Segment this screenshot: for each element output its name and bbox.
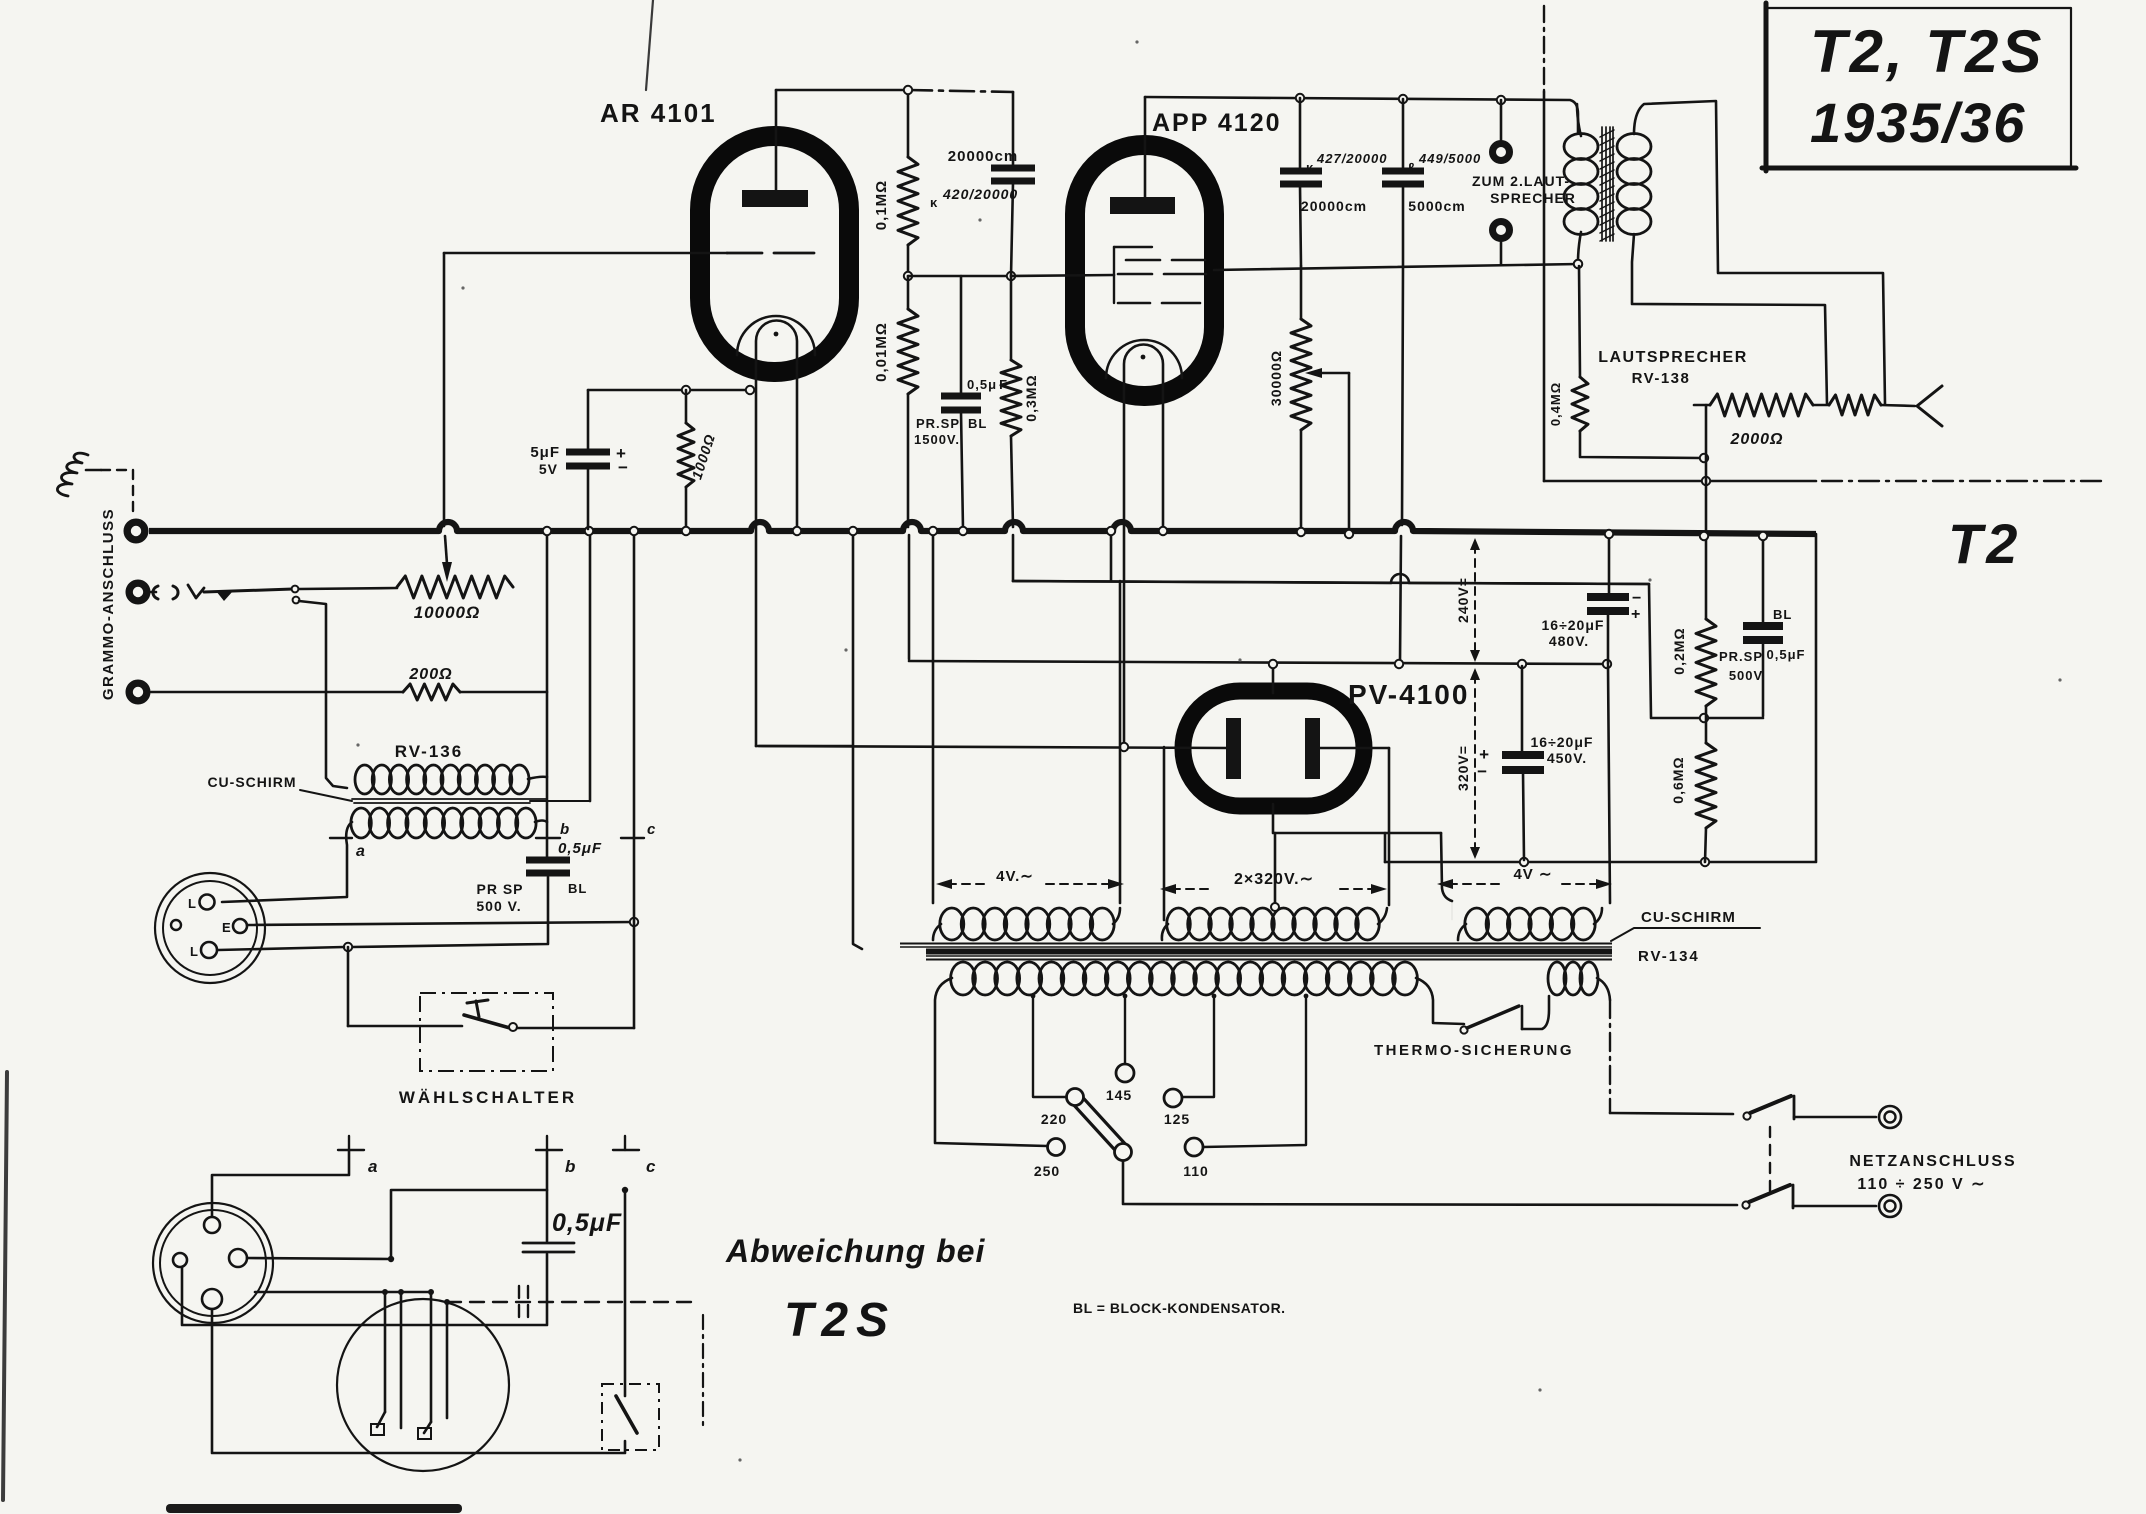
dimension 4V left: [948, 883, 986, 885]
wire 0,1M bottom rail: [908, 275, 1011, 278]
wire 4V-left left lead: [932, 533, 935, 903]
svg-text:T2S: T2S: [784, 1294, 896, 1347]
wire switch to RV-136 primary: [299, 601, 347, 788]
T2S tube pin 4: [446, 1302, 449, 1418]
junction anode rail 3: [1497, 96, 1505, 104]
svg-text:250: 250: [1034, 1163, 1060, 1179]
resistor 1000Ω: [678, 423, 694, 487]
T2S terminal a: [348, 1136, 350, 1150]
label CU-SCHIRM (RV-134): [1611, 928, 1760, 941]
primary tap 145: [1124, 996, 1126, 1064]
junction bus/547: [543, 527, 551, 535]
output transformer core: [1601, 127, 1603, 241]
selector hole 110: [1185, 1138, 1203, 1156]
selector hole 250: [1048, 1139, 1065, 1156]
T2S dashed cross ticks: [518, 1286, 520, 1318]
CU-SCHIRM shield lines: [352, 798, 546, 800]
terminal gramophone 2: [129, 583, 147, 601]
resistor 0,01MΩ leads: [907, 276, 910, 309]
capacitor 5μF 5V: [566, 449, 610, 456]
primary tap 220: [1033, 996, 1066, 1097]
T2S dashed wire: [447, 1301, 700, 1303]
svg-text:RV-136: RV-136: [395, 742, 463, 761]
junction bus/634: [630, 527, 638, 535]
boundary vertical solid: [1543, 92, 1546, 481]
junction 481: [1702, 477, 1710, 485]
resistor 0,01MΩ: [898, 309, 918, 394]
main bus wire (chassis rail): [149, 522, 1816, 534]
terminal gramophone 3: [129, 683, 147, 701]
svg-text:−: −: [1477, 762, 1488, 781]
junction 664 PV: [1269, 660, 1277, 668]
HV left lead: [1163, 747, 1166, 920]
svg-text:κ: κ: [930, 195, 938, 210]
mains switch upper lever: [1750, 1096, 1791, 1113]
T2S capacitor 0,5μF: [523, 1242, 574, 1245]
primary tap 125: [1182, 996, 1214, 1097]
svg-text:5000cm: 5000cm: [1408, 198, 1465, 214]
capacitor 0,5μF PR.SP 1500V: [941, 393, 981, 400]
T2S dash-dot right: [702, 1315, 704, 1428]
pentode APP4120 envelope: [1075, 145, 1214, 396]
APP4120 cathode dome: [1124, 345, 1163, 386]
resistor 0,4MΩ: [1572, 377, 1588, 431]
svg-text:10000Ω: 10000Ω: [414, 603, 481, 622]
scan edge mark bottom-left: [166, 1504, 462, 1513]
Wählschalter dash-dot box: [420, 993, 553, 1071]
pot wiper wire from AR grid: [443, 253, 446, 526]
junction switch a: [292, 586, 299, 593]
capacitor 449/5000 (5000cm): [1382, 168, 1424, 175]
junction bus/1763: [1759, 532, 1767, 540]
dimension 240V line: [1474, 545, 1476, 655]
terminal ring top lead: [1500, 100, 1503, 140]
PV4100 anode right: [1305, 718, 1320, 779]
svg-text:BL: BL: [968, 416, 987, 431]
svg-text:240V=: 240V=: [1455, 577, 1471, 623]
APP4120 grid dashes: [1126, 259, 1160, 262]
svg-text:220: 220: [1041, 1111, 1067, 1127]
junction 664 HT: [1395, 660, 1403, 668]
speaker resistor 2000Ω: [1710, 394, 1813, 416]
mains terminal 1: [1879, 1106, 1901, 1128]
capacitor 5μF leads: [587, 390, 590, 450]
wire selector common: [1123, 1161, 1737, 1205]
mains switch lower contact: [1792, 1185, 1795, 1208]
scan specks: [1135, 40, 1138, 43]
APP4120 heater arc: [1106, 340, 1182, 378]
T2S wire bottom pin: [212, 1309, 625, 1453]
wire top rail AR: [776, 89, 908, 92]
title box: [1766, 8, 2071, 168]
socket pin L bottom: [201, 942, 217, 958]
svg-text:c: c: [646, 1157, 656, 1176]
T2S switch box: [602, 1384, 659, 1450]
wire 2000Ω left drop: [1705, 405, 1708, 619]
CU-SCHIRM leader: [300, 790, 352, 801]
junction anode rail 1: [1296, 94, 1304, 102]
output transformer left coil: [1564, 134, 1598, 160]
mains switch lower lever: [1749, 1185, 1790, 1202]
mains switch upper contact: [1793, 1096, 1796, 1119]
4V right left lead: [1451, 901, 1453, 920]
wire AR filament link: [756, 745, 853, 748]
svg-text:c: c: [647, 821, 656, 838]
tube socket circle outer: [155, 873, 265, 983]
4V left end curves: [933, 908, 1120, 940]
primary winding: [951, 962, 976, 995]
selector hole 125: [1164, 1089, 1182, 1107]
junction bus/686: [682, 527, 690, 535]
resistor 30000Ω leads: [1300, 266, 1303, 319]
svg-text:RV-134: RV-134: [1638, 948, 1700, 965]
PV4100 top lead: [1272, 664, 1275, 693]
antenna tick: [86, 469, 101, 472]
pot wiper arrow: [442, 562, 452, 582]
grammo plug contacts: [153, 586, 178, 599]
capacitor 16-20μF 450V: [1502, 751, 1544, 759]
svg-text:0,5μF: 0,5μF: [1767, 647, 1806, 662]
grammo switch pivot wedge: [216, 591, 233, 601]
svg-text:125: 125: [1164, 1111, 1190, 1127]
selector hole 145: [1116, 1064, 1134, 1082]
T2S tube pin 1: [384, 1292, 387, 1412]
RV-136 secondary right lead: [535, 821, 547, 823]
selector plug bar: [1079, 1102, 1121, 1148]
grammo switch contact V: [188, 585, 204, 598]
output transformer right coil: [1617, 134, 1651, 160]
capacitor 16-20μF 480V: [1587, 593, 1629, 601]
svg-text:2000Ω: 2000Ω: [1729, 431, 1783, 448]
resistor 0,3MΩ leads: [1010, 276, 1013, 360]
APP4120 cathode leg right: [1162, 385, 1165, 529]
wire 4V-left right lead: [1119, 581, 1122, 903]
svg-text:20000cm: 20000cm: [948, 148, 1018, 165]
junction bus/933: [929, 527, 937, 535]
junction bus/963: [959, 527, 967, 535]
resistor 0,1MΩ leads: [907, 90, 910, 157]
RV-136 secondary left lead: [222, 822, 352, 902]
primary right section lead: [1597, 978, 1610, 1000]
capacitor 0,5μF 500V BL: [1743, 622, 1783, 630]
svg-text:449/5000: 449/5000: [1418, 151, 1481, 166]
resistor 0,3MΩ: [1001, 360, 1021, 436]
junction anode rail 2: [1399, 95, 1407, 103]
resistor 1000Ω leads: [685, 390, 688, 423]
svg-text:427/20000: 427/20000: [1316, 151, 1387, 166]
mains switch dashed link: [1769, 1127, 1771, 1194]
svg-text:a: a: [356, 843, 366, 860]
junction bias/753: [746, 386, 754, 394]
svg-text:CU-SCHIRM: CU-SCHIRM: [207, 774, 296, 790]
resistor 0,2MΩ: [1696, 619, 1716, 706]
T2S wire a to socket: [212, 1150, 349, 1216]
scan fold line top: [646, 0, 653, 90]
thermo fuse hinge: [1460, 1026, 1467, 1033]
junction 862 cap450: [1520, 858, 1528, 866]
svg-text:b: b: [560, 821, 570, 838]
junction bus/797: [793, 527, 801, 535]
thermo fuse lever: [1467, 1006, 1519, 1028]
bus end drop: [1385, 534, 1816, 862]
wire screen feed rail: [1013, 574, 1651, 717]
wire Wählschalter to c: [517, 1027, 634, 1030]
svg-text:L: L: [188, 896, 197, 911]
mains terminal 2: [1879, 1195, 1901, 1217]
wire T2 to plug: [151, 591, 156, 594]
svg-text:RV-138: RV-138: [1632, 370, 1691, 387]
terminal ring zum 2.L top: [1493, 144, 1510, 161]
junction grid rail right: [1007, 272, 1015, 280]
AR4101 grid lead: [444, 252, 727, 255]
junction 664 cap450: [1518, 660, 1526, 668]
capacitor 20000cm: [991, 165, 1035, 172]
terminal gramophone 1: [127, 522, 145, 540]
svg-text:GRAMMO-ANSCHLUSS: GRAMMO-ANSCHLUSS: [100, 508, 117, 700]
APP4120 screen lead: [1214, 264, 1578, 270]
wire cathode return rail: [909, 661, 1607, 664]
PV4100 anode left: [1226, 718, 1241, 779]
wire to L pin: [218, 947, 344, 950]
svg-text:320V=: 320V=: [1455, 745, 1471, 791]
T2S tube pin 2: [400, 1292, 403, 1428]
svg-text:PV-4100: PV-4100: [1348, 679, 1469, 710]
dimension 4V right: [1449, 883, 1504, 885]
svg-text:110: 110: [1183, 1163, 1209, 1179]
T2S socket inner: [160, 1210, 266, 1316]
terminal c tick: [621, 837, 644, 839]
junction bus/853: [849, 527, 857, 535]
4V left winding: [940, 908, 964, 940]
svg-text:PR.SP: PR.SP: [1719, 649, 1763, 664]
svg-text:450V.: 450V.: [1547, 750, 1587, 766]
svg-text:PR.SP: PR.SP: [916, 416, 960, 431]
junction grid rail left: [904, 272, 912, 280]
APP4120 grid box: [1113, 247, 1115, 303]
svg-text:2×320V.∼: 2×320V.∼: [1234, 871, 1314, 888]
junction OT bottom: [1574, 260, 1582, 268]
dimension 320V line: [1474, 675, 1476, 852]
wire 200Ω to column: [460, 691, 547, 694]
junction bus/1609: [1605, 530, 1613, 538]
svg-text:+: +: [1631, 606, 1641, 623]
junction bus/1301: [1297, 528, 1305, 536]
wire filament to cathode rail: [1384, 833, 1387, 862]
OT left bottom lead: [1578, 232, 1581, 262]
svg-text:0,2MΩ: 0,2MΩ: [1671, 627, 1687, 674]
boundary horizontal: [1544, 480, 1816, 483]
socket pin L top: [200, 895, 215, 910]
T2S cap chain: [546, 1190, 549, 1241]
T2S terminal c: [624, 1136, 626, 1150]
terminal b tick: [536, 837, 560, 839]
T2S wire into tube: [255, 1291, 431, 1294]
speaker arrow: [1917, 386, 1942, 426]
scan edge line left: [3, 1072, 7, 1500]
svg-text:5V: 5V: [539, 461, 558, 477]
wire heater rail: [1013, 581, 1649, 584]
T2S pin left: [173, 1253, 187, 1267]
svg-text:ZUM 2.LAUT-: ZUM 2.LAUT-: [1472, 173, 1570, 189]
PV center tap drop: [1274, 833, 1277, 903]
OT left top lead: [1577, 104, 1581, 136]
T2S switch lever: [616, 1396, 637, 1433]
junction HV/1124: [1120, 743, 1128, 751]
T2S wire c to switch: [624, 1190, 627, 1396]
junction socket row: [344, 943, 352, 951]
T2S pin top: [204, 1217, 220, 1233]
T2S wire right pin: [247, 1258, 391, 1259]
wire fuse to winding: [1522, 996, 1549, 1029]
resistor 0,4MΩ leads: [1579, 266, 1580, 377]
svg-text:BL: BL: [1773, 607, 1792, 622]
OT right bottom lead: [1632, 234, 1827, 404]
junction switch b: [293, 597, 300, 604]
junction top rail: [904, 86, 912, 94]
primary right lead: [1416, 978, 1464, 1024]
cap 450V leads: [1521, 666, 1524, 753]
svg-text:PR SP: PR SP: [476, 881, 523, 897]
AR4101 cathode leg right: [796, 363, 799, 529]
socket pin E: [233, 919, 247, 933]
wire to mains terminal 1: [1794, 1116, 1876, 1119]
wire switch to volume pot: [299, 588, 397, 589]
Wählschalter lever: [464, 1015, 510, 1028]
svg-text:0,5μF: 0,5μF: [558, 840, 602, 857]
mains switch lower hinge: [1742, 1201, 1749, 1208]
svg-text:WÄHLSCHALTER: WÄHLSCHALTER: [399, 1088, 577, 1107]
svg-text:200Ω: 200Ω: [408, 666, 452, 683]
wire bus to core: [853, 533, 862, 949]
resistor 200Ω: [403, 684, 460, 700]
potentiometer 10000Ω: [397, 576, 513, 598]
4V right winding: [1465, 908, 1489, 940]
wire HV right anode: [1317, 747, 1389, 750]
wire T3 to 200Ω: [151, 691, 403, 694]
svg-text:16÷20μF: 16÷20μF: [1542, 617, 1605, 633]
terminal ring bottom lead: [1500, 242, 1503, 264]
T2S terminal b: [546, 1136, 548, 1150]
svg-text:E: E: [222, 920, 232, 935]
wire to mains terminal 2: [1793, 1205, 1876, 1208]
svg-text:0,1MΩ: 0,1MΩ: [873, 180, 890, 230]
terminal ring zum 2.L bottom: [1493, 222, 1510, 239]
mains dash-dot drop: [1609, 1000, 1611, 1113]
wire cathode bias rail: [588, 389, 753, 392]
AR4101 cathode leg left: [755, 363, 758, 746]
APP4120 anode plate: [1110, 197, 1175, 214]
T2S pin bottom: [202, 1289, 222, 1309]
4V right end curves: [1458, 908, 1602, 940]
terminal a tick: [330, 837, 352, 839]
wire c column: [633, 533, 636, 1028]
capacitor 0,5μF BL (PR SP 500V): [526, 857, 570, 864]
T2S pin right: [229, 1249, 247, 1267]
selector bar bottom hole: [1115, 1144, 1132, 1161]
primary tap 110: [1203, 996, 1306, 1147]
svg-text:Abweichung bei: Abweichung bei: [725, 1233, 985, 1269]
svg-text:0,3MΩ: 0,3MΩ: [1023, 374, 1039, 421]
junction 718: [1700, 714, 1708, 722]
PV filament to 4V winding: [1441, 833, 1452, 901]
wire bus to b column: [546, 531, 549, 857]
tube socket circle inner: [163, 881, 257, 975]
svg-text:0,6MΩ: 0,6MΩ: [1670, 756, 1686, 803]
svg-text:0,4MΩ: 0,4MΩ: [1548, 382, 1563, 426]
svg-text:20000cm: 20000cm: [1301, 198, 1367, 214]
AR4101 anode lead: [775, 90, 778, 190]
wire wiper to bus: [1348, 373, 1351, 532]
resistor 30000Ω: [1291, 319, 1311, 430]
junction bias/686: [682, 386, 690, 394]
svg-text:5μF: 5μF: [530, 444, 560, 461]
svg-text:THERMO-SICHERUNG: THERMO-SICHERUNG: [1374, 1042, 1574, 1059]
capacitor 0,5μF leads: [960, 276, 963, 394]
svg-text:16÷20μF: 16÷20μF: [1531, 734, 1594, 750]
capacitor 449 leads: [1402, 99, 1405, 169]
capacitor K427/20000 (20000cm): [1280, 168, 1322, 175]
svg-text:L: L: [190, 944, 199, 959]
junction 664 cap480: [1603, 660, 1611, 668]
svg-text:1500V.: 1500V.: [914, 432, 960, 447]
svg-text:0,5μF: 0,5μF: [552, 1209, 622, 1237]
wire E pin to c column: [247, 922, 634, 925]
4V right right lead: [1608, 666, 1610, 903]
HV right lead: [1388, 748, 1391, 905]
boundary dash-dot horizontal: [1822, 480, 2108, 482]
capacitor 20000cm leads: [1012, 92, 1015, 166]
RV-136 secondary winding: [351, 808, 371, 838]
resistor links 0,2-0,6: [1705, 706, 1708, 743]
HV end curves: [1162, 908, 1387, 940]
triode AR4101 envelope: [700, 136, 849, 372]
APP4120 cathode leg left: [1123, 385, 1126, 745]
junction screen/transformer: [1574, 260, 1582, 268]
RV-136 primary right lead: [528, 777, 547, 779]
grammo switch lever: [204, 589, 293, 592]
svg-text:CU-SCHIRM: CU-SCHIRM: [1641, 909, 1736, 926]
thermo fuse contact: [1521, 1006, 1524, 1029]
svg-text:110 ÷ 250 V ∼: 110 ÷ 250 V ∼: [1857, 1176, 1986, 1193]
svg-text:κ: κ: [1306, 160, 1314, 175]
junction bus/1111: [1107, 527, 1115, 535]
speaker resistor section 2: [1829, 395, 1881, 415]
mains switch upper hinge: [1743, 1112, 1750, 1119]
svg-text:b: b: [565, 1157, 576, 1176]
wire to mains switch: [1610, 1113, 1733, 1114]
HV center tap: [1271, 903, 1279, 911]
Wählschalter contact: [509, 1023, 517, 1031]
antenna symbol: [57, 453, 88, 496]
HV 2x320V winding: [1167, 908, 1191, 940]
svg-text:1935/36: 1935/36: [1810, 91, 2026, 154]
svg-text:BL = BLOCK-KONDENSATOR.: BL = BLOCK-KONDENSATOR.: [1073, 1300, 1286, 1316]
wire to Wählschalter: [347, 947, 350, 1026]
junction 458: [1700, 454, 1708, 462]
PV4100 bottom lead: [1273, 804, 1441, 833]
speaker line mid: [1813, 404, 1829, 407]
svg-text:a: a: [368, 1157, 378, 1176]
svg-text:145: 145: [1106, 1087, 1132, 1103]
svg-text:AR 4101: AR 4101: [600, 98, 717, 128]
30000Ω wiper arrow: [1305, 368, 1322, 378]
wire anode rail: [1145, 97, 1578, 132]
svg-text:ℓ: ℓ: [1408, 160, 1415, 175]
AR4101 cathode dome: [756, 321, 797, 364]
junction 862 bleeder: [1701, 858, 1709, 866]
svg-text:0,01MΩ: 0,01MΩ: [873, 322, 890, 382]
socket pin small: [171, 920, 181, 930]
